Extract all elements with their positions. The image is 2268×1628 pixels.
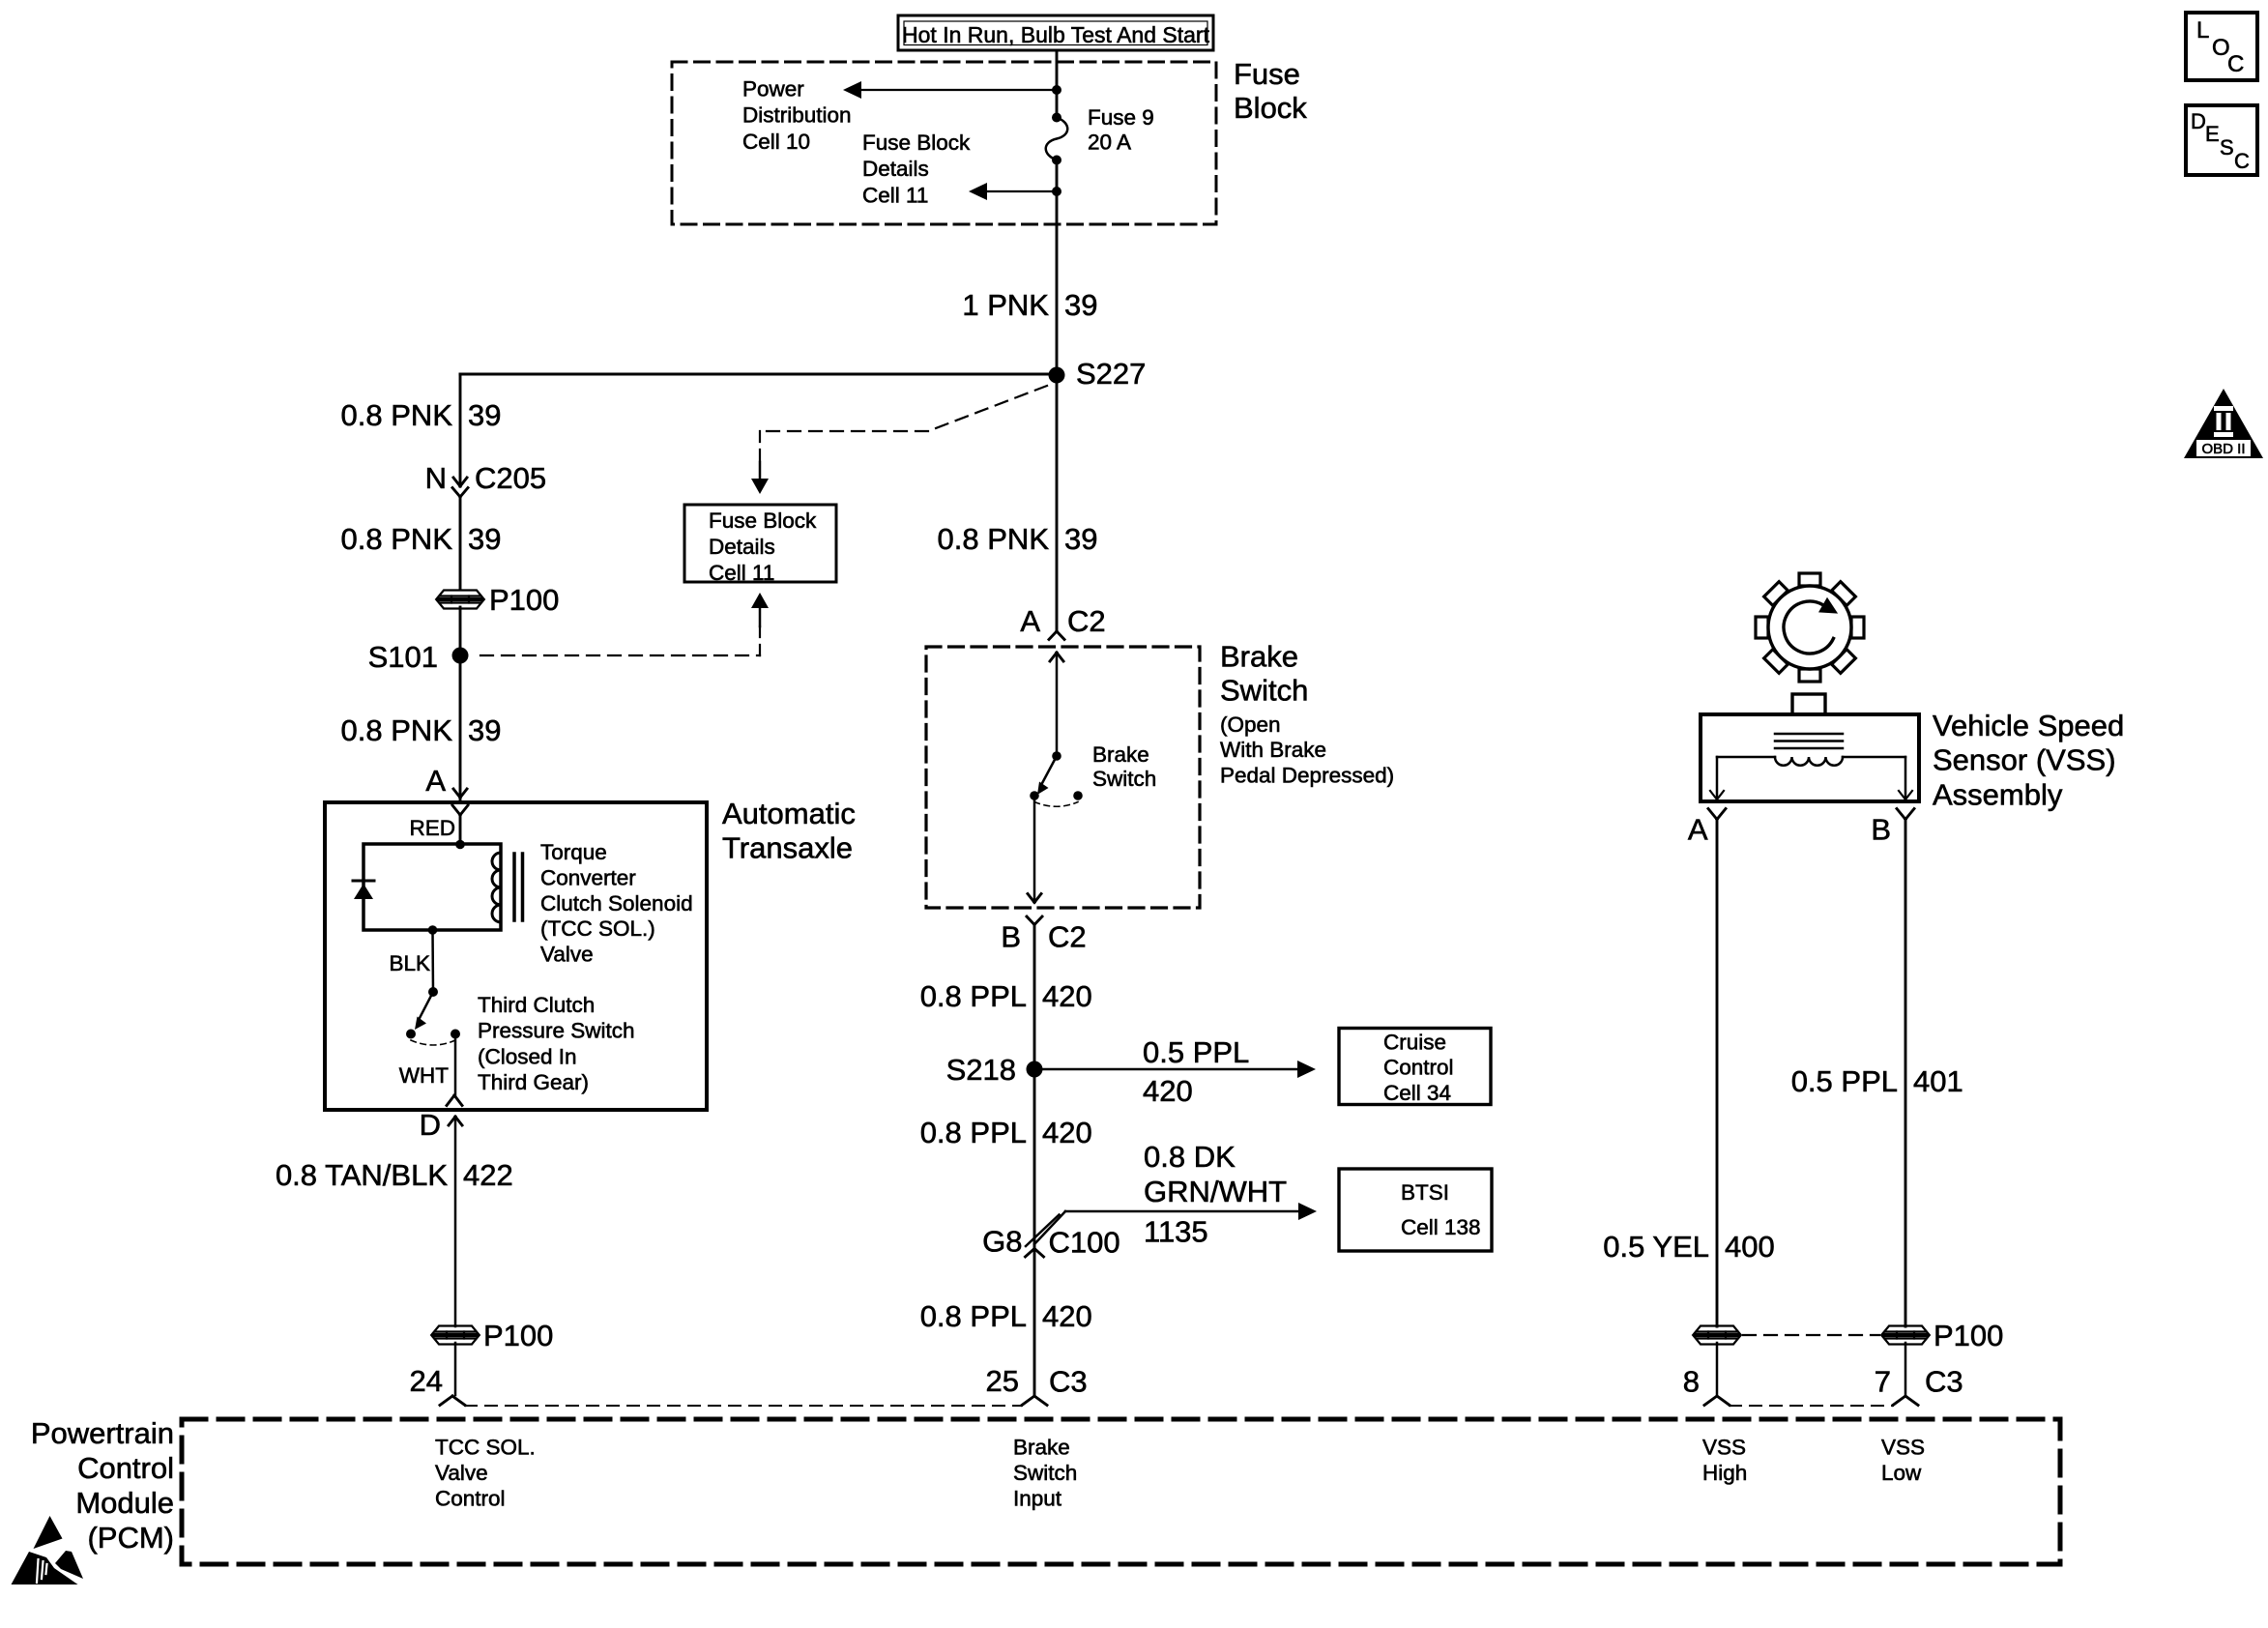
svg-text:Assembly: Assembly [1933, 777, 2063, 811]
svg-text:Cell 10: Cell 10 [742, 130, 810, 154]
wire into solenoid [459, 815, 462, 844]
svg-text:Cell 138: Cell 138 [1401, 1215, 1481, 1239]
svg-text:Third Clutch: Third Clutch [478, 993, 595, 1017]
box: Cruise Control Cell 34 [1339, 1029, 1491, 1105]
svg-text:Control: Control [77, 1451, 174, 1485]
svg-text:Cell 11: Cell 11 [862, 183, 928, 207]
svg-text:(Closed In: (Closed In [478, 1044, 577, 1068]
wire: S218 down, 0.8 PPL 420 [1033, 1066, 1036, 1395]
connector P100 (left) [437, 591, 483, 609]
splice S101 [452, 648, 469, 664]
thin dashed pin lines [465, 1405, 1022, 1407]
box: Automatic Transaxle [325, 802, 707, 1110]
svg-text:Fuse Block: Fuse Block [709, 509, 817, 533]
OBD II symbol [2184, 389, 2263, 458]
third clutch pressure switch [428, 987, 438, 997]
svg-text:Fuse Block: Fuse Block [862, 131, 971, 155]
svg-text:420: 420 [1042, 979, 1092, 1013]
svg-text:RED: RED [409, 816, 455, 840]
wire switch to pin D (WHT) [454, 1034, 457, 1096]
box: Fuse Block Details Cell 11 [684, 505, 836, 582]
svg-text:39: 39 [468, 522, 501, 556]
svg-text:High: High [1702, 1461, 1747, 1485]
wire: S101 to transaxle, 0.8 PNK 39 [459, 655, 462, 801]
VSS tone wheel (gear) [1799, 573, 1820, 586]
arrow to Fuse Block Details Cell 11 (in fuse block) [1052, 187, 1061, 196]
svg-text:39: 39 [468, 398, 501, 432]
svg-text:P100: P100 [483, 1319, 553, 1352]
wire: fuse to S227, 1 PNK 39 [1056, 160, 1059, 376]
wire: S227 down to brake switch, 0.8 PNK 39 [1056, 375, 1059, 630]
svg-text:(Open: (Open [1220, 712, 1281, 737]
svg-text:7: 7 [1875, 1365, 1891, 1399]
svg-text:Brake: Brake [1092, 742, 1149, 767]
svg-text:VSS: VSS [1702, 1436, 1746, 1460]
svg-text:E: E [2205, 122, 2220, 146]
svg-text:Valve: Valve [435, 1461, 488, 1485]
svg-text:BTSI: BTSI [1401, 1180, 1449, 1205]
svg-text:0.5 PPL: 0.5 PPL [1143, 1035, 1249, 1069]
svg-text:S218: S218 [946, 1053, 1016, 1087]
svg-text:Third Gear): Third Gear) [478, 1070, 589, 1094]
VSS leads [1717, 756, 1775, 759]
arrow to Cruise Control Cell 34 [1034, 1068, 1299, 1071]
svg-text:Fuse: Fuse [1234, 57, 1300, 91]
svg-text:TCC SOL.: TCC SOL. [435, 1436, 536, 1460]
svg-text:Pressure Switch: Pressure Switch [478, 1019, 635, 1043]
connector P100 (left lower) [432, 1326, 479, 1345]
DESC box [2186, 105, 2257, 175]
power feed box "Hot In Run, Bulb Test And Start" [898, 15, 1213, 50]
svg-text:0.8 DK: 0.8 DK [1144, 1140, 1236, 1174]
svg-text:S101: S101 [368, 640, 438, 674]
branch to BTSI Cell 138 [1034, 1211, 1065, 1244]
wire: S227 to left branch [460, 373, 1057, 376]
box: Powertrain Control Module (PCM), dashed [182, 1419, 2060, 1564]
svg-text:Switch: Switch [1092, 767, 1156, 791]
ESD symbol [34, 1516, 63, 1549]
svg-text:420: 420 [1143, 1074, 1193, 1108]
fuse block dashed outline [672, 62, 1216, 224]
svg-text:(TCC SOL.): (TCC SOL.) [540, 916, 655, 941]
svg-text:Control: Control [435, 1487, 506, 1511]
svg-text:Switch: Switch [1013, 1461, 1077, 1485]
wire: P100 to S101 [459, 607, 462, 655]
wire: left branch down to C205 [459, 374, 462, 486]
wire: C205 to P100 [459, 497, 462, 590]
svg-text:Control: Control [1383, 1056, 1454, 1080]
svg-text:VSS: VSS [1881, 1436, 1925, 1460]
wire solenoid to pressure switch (BLK) [428, 925, 438, 935]
svg-text:39: 39 [468, 713, 501, 747]
svg-text:20 A: 20 A [1088, 131, 1131, 155]
svg-text:C: C [2234, 149, 2250, 173]
VSS mounting tab [1792, 694, 1825, 714]
svg-text:Pedal Depressed): Pedal Depressed) [1220, 763, 1394, 787]
svg-text:P100: P100 [1934, 1319, 2003, 1352]
svg-text:Torque: Torque [540, 840, 607, 864]
svg-text:Brake: Brake [1220, 640, 1298, 674]
svg-text:0.5 YEL: 0.5 YEL [1603, 1230, 1709, 1264]
box: BTSI Cell 138 [1339, 1169, 1492, 1251]
box: Vehicle Speed Sensor (VSS) Assembly [1701, 714, 1919, 801]
connector C205 pin N [453, 478, 460, 486]
svg-text:420: 420 [1042, 1299, 1092, 1333]
svg-text:422: 422 [463, 1158, 513, 1192]
VSS pickup coil [1775, 757, 1843, 766]
svg-text:0.8 PNK: 0.8 PNK [341, 398, 453, 432]
svg-text:8: 8 [1683, 1365, 1700, 1399]
connector C100 pin G8 [1026, 1215, 1060, 1247]
svg-text:A: A [425, 764, 446, 798]
svg-text:BLK: BLK [389, 951, 430, 975]
svg-text:B: B [1871, 813, 1891, 847]
svg-text:D: D [2191, 109, 2206, 133]
svg-text:N: N [425, 461, 447, 495]
svg-text:400: 400 [1725, 1230, 1775, 1264]
svg-text:1 PNK: 1 PNK [962, 288, 1049, 322]
svg-text:420: 420 [1042, 1116, 1092, 1149]
svg-text:Converter: Converter [540, 865, 636, 889]
svg-text:S: S [2220, 135, 2234, 160]
svg-text:D: D [420, 1108, 441, 1142]
connector C2 pin B [1027, 916, 1034, 925]
svg-text:Power: Power [742, 77, 804, 102]
svg-text:Vehicle Speed: Vehicle Speed [1933, 709, 2124, 742]
svg-text:C2: C2 [1067, 604, 1106, 638]
svg-text:1135: 1135 [1144, 1215, 1208, 1249]
svg-text:0.5 PPL: 0.5 PPL [1791, 1064, 1898, 1098]
svg-text:Block: Block [1234, 91, 1307, 125]
svg-text:0.8 PPL: 0.8 PPL [920, 979, 1027, 1013]
VSS pin B [1897, 809, 1905, 820]
svg-text:OBD II: OBD II [2201, 441, 2245, 457]
svg-text:0.8 PNK: 0.8 PNK [341, 522, 453, 556]
svg-text:Distribution: Distribution [742, 103, 852, 128]
svg-text:Cruise: Cruise [1383, 1031, 1446, 1055]
svg-text:0.8 PPL: 0.8 PPL [920, 1116, 1027, 1149]
svg-text:Transaxle: Transaxle [722, 830, 853, 864]
svg-text:Brake: Brake [1013, 1436, 1070, 1460]
svg-text:C100: C100 [1049, 1226, 1120, 1260]
svg-text:39: 39 [1064, 522, 1097, 556]
TCC solenoid coil rectangle [363, 844, 501, 930]
svg-text:Sensor (VSS): Sensor (VSS) [1933, 743, 2116, 777]
svg-text:C3: C3 [1925, 1365, 1963, 1399]
svg-text:C2: C2 [1048, 920, 1087, 954]
svg-text:24: 24 [410, 1364, 443, 1398]
wire: B C2 to S218, 0.8 PPL 420 [1033, 925, 1036, 1070]
splice S227 [1049, 367, 1065, 384]
svg-text:A: A [1020, 604, 1040, 638]
svg-text:P100: P100 [489, 583, 559, 617]
pin A of automatic transaxle [453, 789, 460, 798]
connector P100 (VSS A) [1694, 1326, 1740, 1345]
box: Brake Switch (dashed) [926, 647, 1200, 908]
svg-text:C: C [2227, 51, 2244, 77]
svg-text:B: B [1001, 920, 1021, 954]
svg-text:Powertrain: Powertrain [31, 1416, 174, 1450]
svg-text:Fuse 9: Fuse 9 [1088, 105, 1154, 130]
svg-text:Automatic: Automatic [722, 797, 856, 830]
svg-text:Clutch Solenoid: Clutch Solenoid [540, 891, 693, 916]
svg-text:0.8 PNK: 0.8 PNK [341, 713, 453, 747]
svg-text:401: 401 [1913, 1064, 1963, 1098]
svg-text:25: 25 [986, 1364, 1019, 1398]
dashed link between P100 halves [1743, 1334, 1879, 1336]
svg-text:S227: S227 [1076, 357, 1146, 391]
svg-text:(PCM): (PCM) [87, 1521, 174, 1555]
splice S218 [1027, 1061, 1043, 1078]
svg-text:Details: Details [862, 157, 929, 181]
LOC box [2186, 13, 2257, 80]
svg-text:A: A [1688, 813, 1708, 847]
svg-text:Input: Input [1013, 1487, 1062, 1511]
VSS core [1775, 733, 1843, 736]
solenoid coil bumps [492, 853, 501, 922]
svg-text:With Brake: With Brake [1220, 738, 1326, 762]
svg-text:Low: Low [1881, 1461, 1922, 1485]
svg-text:Hot In Run, Bulb Test And Star: Hot In Run, Bulb Test And Start [902, 22, 1210, 47]
svg-text:39: 39 [1064, 288, 1097, 322]
svg-text:0.8 PPL: 0.8 PPL [920, 1299, 1027, 1333]
svg-text:Cell 34: Cell 34 [1383, 1081, 1451, 1105]
dashed ref: S101 to Fuse Block Details box [480, 654, 760, 656]
diode [353, 880, 374, 883]
wire: VSS B to P100, 0.5 PPL 401 [1905, 820, 1907, 1327]
svg-text:L: L [2196, 17, 2209, 44]
wire: feed to fuse [1056, 50, 1059, 118]
svg-text:C205: C205 [475, 461, 546, 495]
fuse F9 (Fuse 9 20 A) [1052, 113, 1061, 123]
svg-text:C3: C3 [1049, 1365, 1088, 1399]
svg-text:Switch: Switch [1220, 674, 1308, 708]
arrow to Power Distribution Cell 10 [1052, 85, 1061, 95]
wire: VSS A to P100, 0.5 YEL 400 [1716, 820, 1719, 1327]
svg-text:0.8 PNK: 0.8 PNK [938, 522, 1050, 556]
VSS pin A [1708, 809, 1717, 820]
svg-text:Cell 11: Cell 11 [709, 561, 774, 585]
dashed ref: S227 to Fuse Block Details box [928, 386, 1047, 431]
connector P100 (VSS B) [1882, 1326, 1929, 1345]
svg-text:Module: Module [75, 1486, 174, 1520]
svg-text:G8: G8 [982, 1225, 1022, 1259]
svg-text:GRN/WHT: GRN/WHT [1144, 1175, 1287, 1208]
chevron inside transaxle top (RED) [452, 805, 460, 815]
connector C2 pin A [1049, 631, 1057, 640]
solenoid core lines [512, 854, 516, 920]
svg-text:Valve: Valve [540, 943, 594, 967]
svg-text:0.8 TAN/BLK: 0.8 TAN/BLK [276, 1158, 448, 1192]
svg-text:Details: Details [709, 535, 775, 559]
brake switch contacts [1050, 653, 1057, 661]
svg-text:WHT: WHT [399, 1063, 449, 1088]
